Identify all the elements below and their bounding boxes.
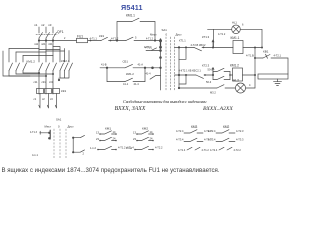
- contact KM1 aux2: [100, 137, 116, 140]
- svg-text:4-Т2.В КБС2: 4-Т2.В КБС2: [191, 43, 207, 47]
- wire phase B vertical: [45, 27, 47, 94]
- svg-text:4-Т2.3: 4-Т2.3: [236, 129, 244, 133]
- svg-text:КМ3: КМ3: [191, 125, 198, 129]
- node SA1 pole bottom: [159, 46, 162, 49]
- node SA1 pole top: [159, 39, 162, 42]
- svg-text:с31: с31: [49, 80, 54, 84]
- thermal relay KK1 heater 2: [45, 89, 52, 94]
- terminal block XT: [258, 74, 288, 79]
- svg-text:41-4: 41-4: [146, 73, 152, 76]
- contact KK1 trip: [101, 37, 108, 40]
- wire phase C vertical: [52, 27, 54, 94]
- lamp HL2: [236, 83, 246, 93]
- contact KM3 aux3: [187, 147, 200, 150]
- svg-text:41-1: 41-1: [123, 82, 129, 86]
- contact KM2 upper stub: [213, 68, 230, 71]
- svg-text:КМ2.1: КМ2.1: [61, 59, 70, 63]
- svg-text:4-Т2.4: 4-Т2.4: [210, 149, 218, 152]
- svg-text:Свободные контакты для выводов: Свободные контакты для выводов с индекса…: [123, 99, 207, 104]
- node bus row2: [254, 74, 256, 76]
- wire stub verticals: [213, 72, 230, 80]
- wire row1 rail: [175, 46, 263, 48]
- svg-text:В ящиках с индексами 1874...30: В ящиках с индексами 1874...3074 предохр…: [2, 167, 220, 174]
- node local left: [106, 67, 108, 69]
- svg-text:л21: л21: [41, 42, 46, 46]
- wire reverse cross connections: [9, 73, 53, 76]
- svg-text:HL2: HL2: [233, 79, 239, 83]
- svg-text:КТ2.3: КТ2.3: [202, 64, 210, 68]
- svg-text:л1: л1: [34, 23, 38, 27]
- svg-text:4-Т2.2: 4-Т2.2: [155, 145, 163, 149]
- svg-text:Мест: Мест: [45, 125, 52, 129]
- svg-text:50-3: 50-3: [206, 80, 212, 84]
- svg-text:КТ1.1: КТ1.1: [179, 39, 186, 43]
- svg-text:КМ1: КМ1: [105, 126, 111, 130]
- svg-text:4-Т2.4: 4-Т2.4: [176, 129, 184, 133]
- contact KM1 aux1: [100, 131, 116, 134]
- wire to ground: [277, 79, 279, 82]
- coil KM1: [233, 41, 243, 54]
- svg-text:КМ1.1: КМ1.1: [126, 14, 135, 18]
- svg-text:КТ1.3: КТ1.3: [202, 35, 210, 39]
- node mesh joins: [45, 75, 47, 77]
- svg-text:4-Т1.В: 4-Т1.В: [246, 54, 254, 58]
- node bus top: [254, 47, 256, 49]
- contact lower Mest: [40, 131, 50, 134]
- node tap L1: [38, 39, 40, 41]
- svg-text:0: 0: [166, 32, 168, 36]
- node row2 stub right: [229, 74, 231, 76]
- svg-text:5: 5: [135, 36, 137, 40]
- svg-text:с21: с21: [42, 80, 47, 84]
- svg-text:с1: с1: [34, 97, 37, 101]
- node row1 contact: [203, 47, 205, 49]
- wire row3 rail: [179, 87, 255, 89]
- svg-text:14: 14: [150, 130, 153, 134]
- contactor KM2.1 right group: [53, 47, 69, 63]
- node after KK1: [110, 40, 112, 42]
- node tap L2: [45, 39, 47, 41]
- svg-text:КВ1: КВ1: [263, 50, 269, 54]
- svg-text:41-В: 41-В: [101, 63, 107, 67]
- svg-text:QF1: QF1: [57, 30, 64, 34]
- svg-text:4-Т2.2: 4-Т2.2: [144, 46, 152, 49]
- contact KT2 aux2: [216, 138, 235, 141]
- svg-text:л2: л2: [41, 23, 45, 27]
- node r2: [178, 74, 180, 76]
- svg-text:41-А: 41-А: [138, 63, 144, 67]
- svg-text:Я5411: Я5411: [121, 3, 143, 12]
- svg-text:4-Т2.2: 4-Т2.2: [234, 149, 242, 152]
- svg-text:SA1: SA1: [56, 118, 62, 122]
- wire left columns: [9, 49, 23, 63]
- pushbutton SB1: [126, 37, 133, 40]
- contact KM2 lower stub: [213, 76, 230, 79]
- contact KM3 aux2: [184, 138, 203, 141]
- svg-text:14: 14: [113, 130, 116, 134]
- node loop1: [185, 46, 187, 48]
- svg-text:4-Т1.2: 4-Т1.2: [146, 37, 154, 40]
- wire phase A vertical: [38, 27, 40, 94]
- wire seal-in loop: [117, 22, 155, 41]
- svg-text:СБ1: СБ1: [123, 59, 129, 63]
- svg-text:13: 13: [133, 130, 136, 134]
- node loop2: [185, 74, 187, 76]
- wire remote column: [178, 47, 180, 88]
- contact KM3 aux1: [184, 130, 203, 133]
- node after fuse: [90, 40, 92, 42]
- phase labels L1 L2 L3: [34, 23, 52, 27]
- svg-text:13: 13: [96, 130, 99, 134]
- wire row2 bypass loop: [179, 75, 186, 84]
- svg-text:2: 2: [83, 152, 85, 156]
- node local pole: [151, 67, 154, 70]
- svg-text:Дист: Дист: [176, 32, 183, 36]
- wire control rail: [39, 40, 161, 42]
- svg-text:КМ1.2: КМ1.2: [27, 60, 36, 64]
- wire KT1.3 arrow: [212, 40, 214, 48]
- node row2 stub left: [212, 74, 214, 76]
- wire KT2.3 arrow: [212, 68, 214, 76]
- node row2 mid: [212, 74, 214, 76]
- svg-text:24: 24: [113, 137, 116, 141]
- svg-text:КК1: КК1: [99, 34, 104, 38]
- svg-text:Мест: Мест: [150, 32, 157, 36]
- svg-text:с11: с11: [34, 80, 39, 84]
- pushbutton SB2 start: [125, 64, 133, 67]
- svg-text:4-1.1: 4-1.1: [32, 153, 38, 157]
- svg-text:л11: л11: [34, 42, 39, 46]
- wire local loop: [100, 68, 161, 82]
- svg-text:SA1: SA1: [162, 28, 168, 32]
- lamp HL1: [232, 25, 241, 34]
- switch SA1 lower bar: [49, 130, 51, 139]
- svg-text:с2: с2: [42, 97, 45, 101]
- wire km2 bottom join: [39, 50, 65, 81]
- wire right bus: [254, 48, 256, 89]
- node loop left: [116, 39, 118, 41]
- contact KM2 aux2: [137, 137, 153, 140]
- contact KM1.1 seal-in: [132, 18, 139, 21]
- switch SA1 bar: [160, 39, 162, 47]
- contact KM1 aux3: [98, 146, 116, 149]
- svg-text:4: 4: [249, 83, 251, 87]
- node r1: [178, 46, 180, 48]
- thermal relay KK1 heater 1: [37, 89, 44, 94]
- svg-text:л3: л3: [48, 23, 52, 27]
- fuse FU1: [77, 38, 88, 42]
- svg-text:24: 24: [150, 137, 153, 141]
- node r3: [178, 87, 180, 89]
- svg-text:с3: с3: [50, 97, 53, 101]
- wire row2 rail: [175, 74, 256, 76]
- svg-text:4-Т1.4: 4-Т1.4: [178, 149, 186, 152]
- svg-text:50-1: 50-1: [208, 67, 214, 71]
- svg-text:0: 0: [58, 125, 60, 129]
- svg-text:4-Т2.4: 4-Т2.4: [208, 129, 216, 133]
- svg-text:4-Т3.4: 4-Т3.4: [176, 138, 184, 142]
- svg-text:НL1: НL1: [232, 21, 237, 25]
- wire left outer return: [3, 51, 30, 76]
- wire lower Dist: [73, 135, 84, 152]
- svg-text:1-1.2: 1-1.2: [90, 146, 96, 150]
- svg-text:М3.2: М3.2: [210, 91, 216, 95]
- contact row2: [196, 75, 204, 78]
- contact SA1 Mest row1: [146, 48, 161, 51]
- svg-text:6: 6: [242, 24, 244, 27]
- svg-text:КМ1.1: КМ1.1: [231, 36, 240, 40]
- node row1 mid: [212, 47, 214, 49]
- coil KM2: [233, 68, 243, 81]
- breaker QF1: [39, 33, 57, 39]
- svg-text:41-4: 41-4: [134, 82, 140, 86]
- node bus mid: [254, 57, 256, 59]
- contact KM2 aux3: [135, 146, 153, 149]
- thermal relay KK1 heater 3: [53, 89, 60, 94]
- node row2 contact: [204, 74, 206, 76]
- node SA1 local row: [159, 67, 161, 69]
- svg-text:КМ2: КМ2: [223, 125, 230, 129]
- svg-text:КК1: КК1: [61, 89, 66, 93]
- svg-text:КМ1.2: КМ1.2: [126, 72, 134, 76]
- node loop right: [154, 39, 156, 41]
- contact KT2 aux1: [216, 130, 235, 133]
- svg-text:4-КТ2.1 КБ КБС2.1: 4-КТ2.1 КБ КБС2.1: [179, 69, 202, 73]
- wire lamp1 branch: [208, 29, 263, 47]
- node lamp join: [261, 47, 263, 49]
- svg-text:23: 23: [96, 137, 99, 141]
- node j80: [58, 79, 60, 81]
- node tap L3: [52, 39, 54, 41]
- contactor KM2.2 reverse contacts: [9, 63, 27, 71]
- wire row1 bypass loop: [179, 47, 186, 59]
- svg-text:КМ1.2: КМ1.2: [230, 64, 239, 68]
- svg-text:4-Т3.4: 4-Т3.4: [208, 138, 216, 142]
- contact KM2 aux1: [137, 131, 153, 134]
- contact KT1.4: [194, 47, 202, 50]
- wire motor leads: [39, 94, 57, 109]
- node SA1 row2: [159, 56, 162, 59]
- svg-text:ВХХХ..А2ХХ: ВХХХ..А2ХХ: [203, 106, 233, 112]
- svg-text:23: 23: [133, 137, 136, 141]
- contact KT2 aux3: [219, 147, 232, 150]
- svg-text:2-1.2: 2-1.2: [126, 146, 132, 150]
- wire limit branch: [255, 58, 288, 74]
- contact 41-4 branch: [150, 75, 161, 79]
- node local right: [144, 67, 146, 69]
- wire reversing branch taps: [9, 49, 53, 56]
- contact KM2.3: [217, 85, 224, 88]
- svg-text:4-Т1.2: 4-Т1.2: [202, 149, 210, 152]
- svg-text:4-Т3.3: 4-Т3.3: [236, 138, 244, 142]
- contactor KM1.3 forward contacts: [39, 63, 57, 71]
- svg-text:4-Т1.3: 4-Т1.3: [30, 131, 38, 134]
- svg-text:КМ2: КМ2: [142, 126, 148, 130]
- contact KM1.2 aux: [125, 78, 133, 81]
- svg-text:FU1: FU1: [77, 34, 83, 38]
- svg-text:Дист: Дист: [68, 125, 75, 129]
- contact KV1 limit switch: [263, 54, 270, 58]
- ground: [274, 82, 282, 86]
- wire SA1 pole bus: [160, 47, 162, 90]
- svg-text:4-Т1.2: 4-Т1.2: [218, 33, 226, 36]
- svg-text:ВХХХ, ЗАХХ: ВХХХ, ЗАХХ: [115, 106, 146, 112]
- svg-text:л31: л31: [48, 42, 53, 46]
- svg-text:2: 2: [64, 37, 66, 40]
- svg-text:4-Т2.1: 4-Т2.1: [274, 54, 282, 58]
